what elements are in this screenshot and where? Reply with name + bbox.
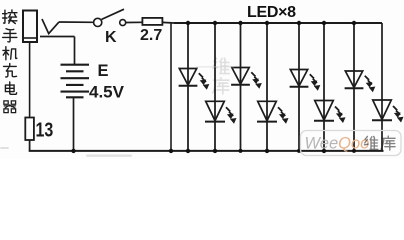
wire: plug body to resistor 13	[29, 42, 31, 118]
junction top rail branch 1	[186, 21, 190, 25]
battery E 4.5V	[61, 65, 90, 98]
junction top rail branch 2	[213, 21, 217, 25]
LED branch 7 (upper)	[345, 23, 375, 151]
LED D5	[290, 70, 320, 90]
wire: resistor 13 to bottom rail	[29, 140, 31, 151]
wire: switch to resistor 2.7	[126, 21, 143, 23]
wire branch 4	[266, 23, 268, 151]
bottom rail	[29, 150, 384, 152]
LED branch 6 (lower)	[314, 23, 345, 151]
LED D6	[314, 101, 345, 123]
LED branch 8 (lower, right edge)	[372, 23, 403, 151]
switch K contact 2	[120, 20, 126, 26]
label 接手机充电器 (vertical Chinese caption)	[3, 10, 17, 113]
top rail junction dots	[186, 21, 356, 25]
junction bottom rail branch 5	[297, 149, 301, 153]
LED D4	[257, 101, 288, 123]
junction bottom rail branch 6	[322, 149, 326, 153]
resistor R 2.7	[142, 18, 162, 25]
left edge wire	[170, 23, 172, 151]
svg-text:WeeQoo: WeeQoo	[305, 135, 370, 153]
wire: plug to switch	[59, 21, 94, 23]
wire branch 6	[323, 23, 325, 151]
LED D8	[372, 100, 403, 122]
switch K lever	[102, 9, 124, 19]
wire branch 1	[187, 23, 189, 151]
junction top rail branch 6	[322, 21, 326, 25]
junction bottom rail branch 2	[213, 149, 217, 153]
wire: jack to battery +	[74, 37, 76, 65]
junction top rail branch 5	[297, 21, 301, 25]
junction top rail branch 3	[238, 21, 242, 25]
LED D1	[179, 69, 209, 89]
LED branch 3 (upper)	[231, 23, 261, 151]
wire branch 7	[353, 23, 355, 151]
LED branch 1 (upper)	[179, 23, 209, 151]
LED D7	[345, 71, 375, 91]
jack contact line	[40, 36, 75, 38]
watermark WeeQoo维库 (bottom right)	[301, 131, 402, 156]
LED D2	[205, 101, 236, 123]
wire: battery - to bottom rail	[73, 97, 75, 151]
top rail	[174, 22, 382, 24]
junction bottom rail battery	[71, 149, 75, 153]
junction bottom rail branch 4	[265, 149, 269, 153]
LED D3	[231, 68, 261, 88]
junction bottom rail branch 1	[186, 149, 190, 153]
wire branch 8	[381, 23, 383, 151]
wire: resistor 2.7 to LED array	[162, 21, 174, 24]
junction bottom rail branch 7	[352, 149, 356, 153]
wire branch 3	[240, 23, 242, 151]
faint watermark 维库 (middle)	[213, 58, 230, 94]
wire branch 5	[298, 23, 300, 151]
LED branch 2 (lower)	[205, 23, 236, 151]
junction bottom rail left edge	[169, 149, 173, 153]
charger plug body	[23, 11, 37, 43]
resistor R13	[25, 118, 34, 141]
plug tip (arrow V)	[42, 19, 59, 34]
bottom rail junction dots	[71, 149, 356, 153]
junction bottom rail branch 3	[239, 149, 243, 153]
wire branch 2	[214, 23, 216, 151]
junction top rail branch 7	[352, 21, 356, 25]
LED branch 5 (upper)	[290, 23, 320, 151]
junction top rail branch 4	[265, 21, 269, 25]
LED branch 4 (lower)	[257, 23, 288, 151]
switch K contact 1	[94, 18, 102, 26]
